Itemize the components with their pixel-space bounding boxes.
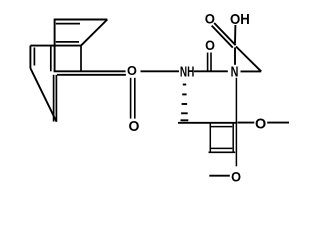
wire: benzene ring bottom edge [209, 151, 236, 153]
wire: carbamate C=O double line b [134, 78, 136, 119]
wire: C9 to ester O bond upper line [54, 70, 126, 72]
svg-text:O: O [129, 119, 140, 135]
wire: benzene ring right edge [232, 123, 234, 153]
wire: benzene ring inner bottom double line [211, 147, 232, 149]
wire: acid C=O double line a [214, 23, 235, 45]
wire: fluorene middle ring right vertical [80, 46, 82, 72]
wire: ring to right methoxy O bond [238, 122, 255, 124]
wire: fluorene top ring right diagonal [81, 20, 107, 46]
svg-text:O: O [205, 38, 215, 53]
wire: fluorene top ring top edge [54, 18, 108, 20]
wire: benzene ring left edge [209, 123, 211, 153]
hashed stereo bond dash 2 [182, 93, 186, 95]
wire: acid C to ring N vertical bond [234, 48, 236, 65]
wire: acid C=O double line b [212, 26, 233, 48]
wire: acid C to CH2 diagonal bond [236, 47, 261, 72]
svg-text:OH: OH [230, 12, 250, 28]
wire: NH to amide C to ring N bond [194, 70, 228, 72]
wire: right methoxy O to methyl bond [267, 122, 289, 124]
svg-text:O: O [205, 12, 215, 28]
hashed stereo bond dash 1 [183, 84, 186, 86]
wire: fluorene top ring inner double line [56, 23, 80, 25]
wire: benzene ring inner top double line [211, 126, 232, 128]
wire: amide C=O double line b [210, 53, 212, 71]
svg-text:O: O [255, 117, 266, 133]
hashed stereo bond dash 5 [181, 119, 189, 121]
wire: CH2 to ring N bond [241, 70, 262, 72]
svg-text:N: N [231, 64, 239, 80]
wire: ring N down through benzene to methoxy O vertical [235, 78, 237, 167]
svg-text:O: O [127, 63, 137, 78]
wire: fluorene main central vertical [54, 20, 56, 72]
hashed stereo bond dash 3 [182, 103, 188, 105]
wire: fluorene mid inner double line [56, 41, 79, 43]
wire: fluorene left ring inner double line [33, 48, 35, 66]
wire: hydroxyl O to acid C bond [234, 25, 236, 44]
hashed stereo bond dash 4 [181, 112, 188, 114]
wire: fluorene left ring left vertical [29, 46, 31, 69]
wire: fluorene central double line upper [50, 46, 52, 72]
wire: C9 to ester O bond lower line [57, 74, 126, 76]
wire: ester O to NH bond [141, 70, 180, 72]
wire: fluorene central vertical lower a [53, 75, 55, 122]
wire: carbamate C=O double line a [130, 78, 132, 119]
wire: bottom methoxy O to methyl bond [209, 175, 230, 177]
svg-text:NH: NH [180, 64, 195, 80]
svg-text:O: O [231, 169, 241, 184]
wire: fluorene left ring bottom diagonal [30, 68, 56, 121]
wire: fluorene central vertical lower b [55, 75, 57, 122]
wire: stereocenter to benzene ring top edge [178, 122, 237, 124]
wire: fluorene mid horizontal edge [30, 45, 81, 47]
wire: amide C=O double line a [207, 53, 209, 71]
